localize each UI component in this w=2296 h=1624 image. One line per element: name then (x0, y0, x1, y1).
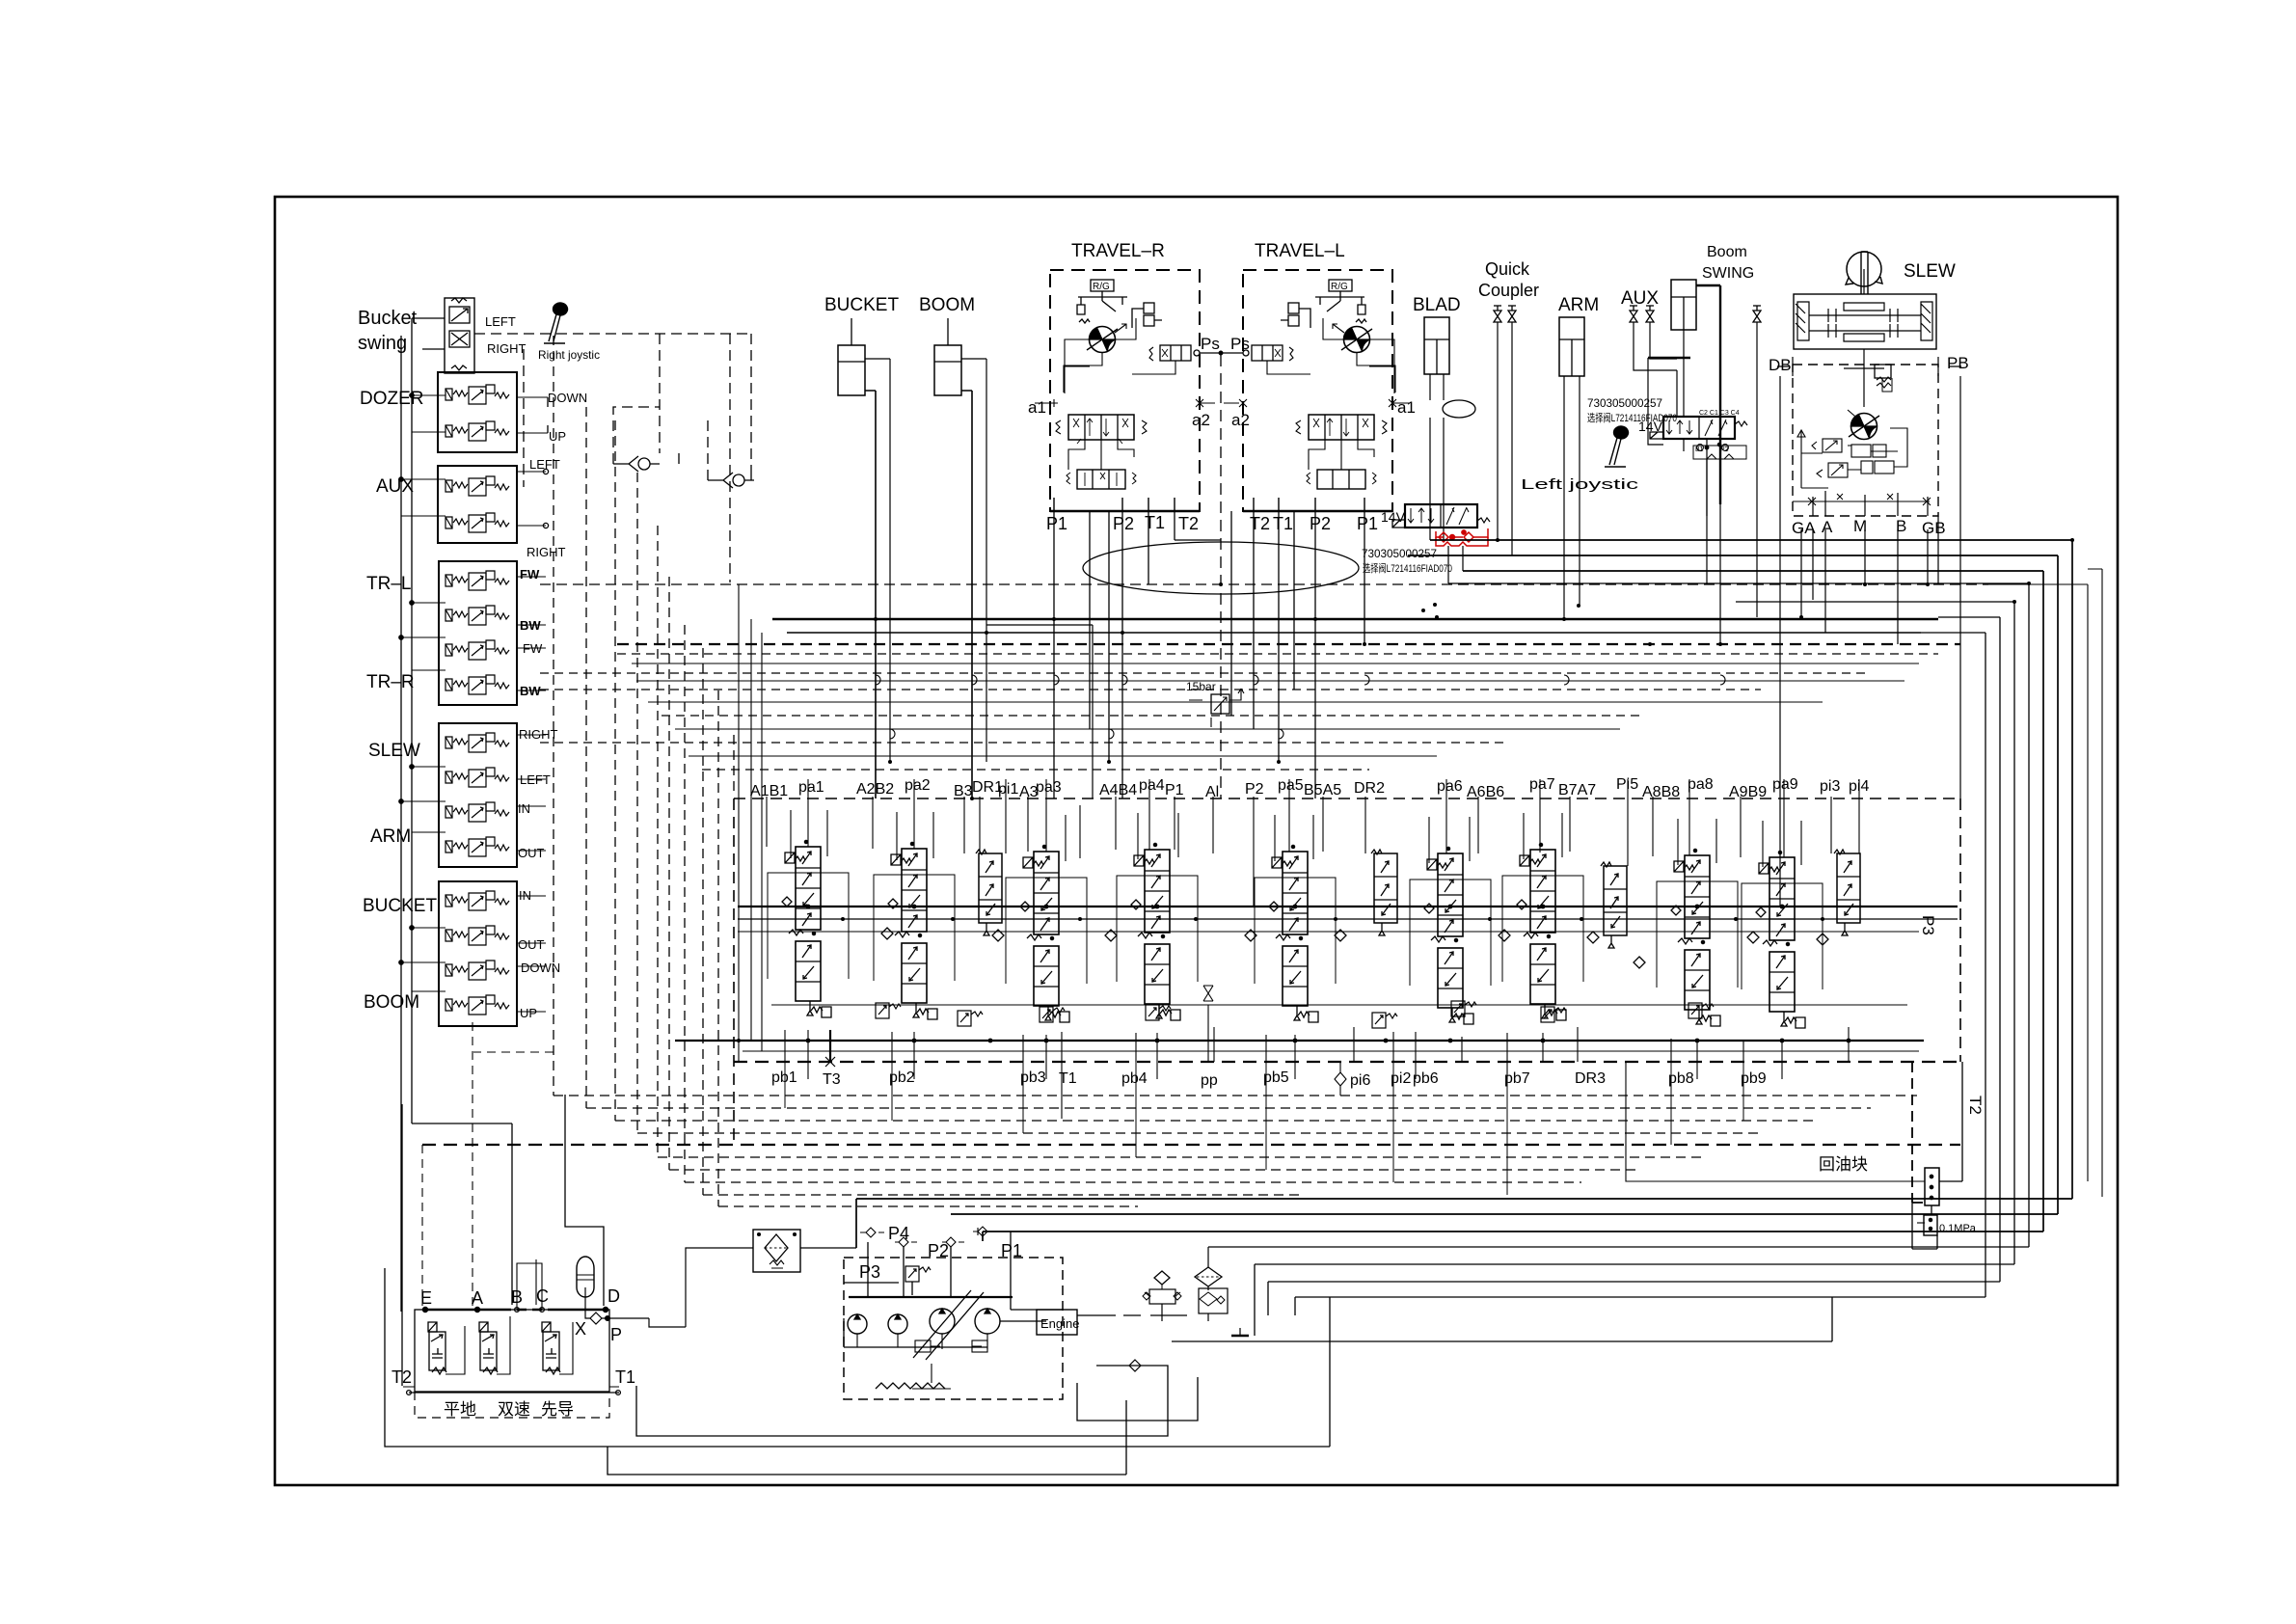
valve pilot solenoid 2 (479, 1322, 498, 1374)
port drop wires from label row into sections (767, 779, 1859, 907)
wire: dashed drops to EABCD (422, 1022, 554, 1306)
valve block SLEW / ARM (401, 723, 546, 867)
wire: pump suction to tank line (1011, 1297, 1832, 1341)
wire: left vertical bus lines (401, 318, 512, 1312)
svg-text:选择阀L7214116FIAD070: 选择阀L7214116FIAD070 (1587, 411, 1677, 424)
filter small (air breather) (1154, 1271, 1170, 1285)
svg-text:A: A (1822, 518, 1833, 536)
svg-text:730305000257: 730305000257 (1362, 547, 1437, 560)
svg-text:R/G: R/G (1093, 282, 1110, 292)
svg-text:pb1: pb1 (771, 1069, 797, 1086)
svg-text:Bucket: Bucket (358, 308, 418, 329)
wire: center dashed divider (1220, 355, 1222, 798)
wire hops (crossing arcs) (876, 675, 1725, 739)
svg-text:P: P (610, 1325, 622, 1344)
svg-text:AUX: AUX (376, 476, 414, 497)
manifold bottom port labels (771, 1069, 1767, 1089)
wire: travel port drops (1054, 511, 1221, 798)
valve sections (short) (976, 850, 1002, 935)
section bottom drop wires (785, 1027, 1849, 1119)
svg-text:P4: P4 (888, 1224, 909, 1243)
cylinder Boom SWING (1648, 280, 1720, 504)
svg-text:P2: P2 (1310, 514, 1331, 533)
svg-text:B7A7: B7A7 (1558, 782, 1596, 798)
DB / PB port stubs (1777, 357, 1961, 376)
T lines (403, 1386, 619, 1388)
manifold top port labels (750, 776, 1869, 800)
swash plate arrows (913, 1290, 984, 1360)
svg-text:T1: T1 (1273, 514, 1293, 533)
valve block BUCKET / BOOM (401, 881, 546, 1026)
valve block TR-L / TR-R (401, 561, 546, 705)
check valve pilot 1 (613, 456, 660, 472)
svg-text:pi6: pi6 (1350, 1072, 1370, 1089)
svg-text:Pi5: Pi5 (1616, 776, 1638, 793)
svg-text:DR2: DR2 (1354, 780, 1385, 797)
valve pi6 check (1335, 1062, 1346, 1096)
svg-text:T3: T3 (823, 1071, 841, 1088)
shuttle valve with spring (1160, 345, 1191, 361)
svg-text:DR3: DR3 (1575, 1070, 1606, 1087)
main spool row (1068, 415, 1134, 440)
svg-text:P2: P2 (1245, 781, 1264, 798)
ports under travel-R (1054, 498, 1175, 511)
svg-text:a1: a1 (1028, 398, 1046, 417)
valve selector-1 (travel speed, 14V) (1392, 504, 1490, 528)
svg-text:T2: T2 (1250, 514, 1270, 533)
T3 port stub (829, 1030, 831, 1062)
wire: long dashed pilot bus (540, 583, 1988, 585)
svg-text:a2: a2 (1231, 411, 1250, 429)
gauge ticks at P4/P2/P1 (860, 1228, 884, 1237)
svg-text:B: B (1896, 517, 1906, 535)
svg-text:P1: P1 (1046, 514, 1067, 533)
svg-text:Coupler: Coupler (1478, 281, 1539, 300)
svg-text:先导: 先导 (541, 1400, 574, 1419)
svg-text:OUT: OUT (518, 937, 545, 952)
travel-R dashed enclosure (1050, 270, 1200, 511)
filter suction (1195, 1267, 1222, 1286)
svg-text:P2: P2 (928, 1241, 949, 1260)
svg-text:A6B6: A6B6 (1467, 784, 1504, 800)
bowtie drain symbol (1203, 986, 1213, 1001)
svg-text:D: D (608, 1286, 620, 1306)
section frames (768, 873, 1823, 989)
svg-text:pa2: pa2 (905, 777, 931, 794)
accumulator (577, 1257, 594, 1297)
svg-text:pb3: pb3 (1020, 1069, 1046, 1086)
svg-text:B1: B1 (1695, 447, 1704, 453)
border frame (275, 197, 2118, 1485)
wire: T1 return to right (636, 1366, 1168, 1436)
svg-text:A: A (472, 1288, 483, 1308)
svg-text:LEFT: LEFT (520, 772, 551, 787)
ellipse joint small (BLAD line) (1443, 400, 1475, 418)
wire: selector-2 drops (1684, 439, 1720, 644)
svg-text:Left joystic: Left joystic (1521, 476, 1639, 493)
svg-text:Quick: Quick (1485, 259, 1530, 279)
svg-text:ARM: ARM (370, 826, 411, 847)
svg-text:14V: 14V (1638, 419, 1663, 434)
svg-text:RIGHT: RIGHT (519, 727, 558, 742)
valve pilot solenoid 1 (428, 1322, 446, 1374)
cylinder ARM (1559, 317, 1584, 619)
wire: port-to-dashed-bus stubs below manifold (785, 1062, 1743, 1195)
svg-text:GA: GA (1792, 519, 1816, 537)
joystick left (1605, 426, 1628, 467)
bottom ports row (1793, 501, 1930, 502)
valve block AUX (left) (401, 466, 549, 543)
svg-text:TR–R: TR–R (366, 672, 415, 692)
svg-text:DOZER: DOZER (360, 389, 424, 409)
svg-text:P2: P2 (1720, 447, 1729, 453)
red pilot lines on selector-1 (1436, 528, 1488, 546)
cylinder BUCKET (838, 318, 890, 798)
wire: manifold left edge verticals (739, 584, 762, 1062)
svg-text:pa7: pa7 (1529, 776, 1555, 793)
svg-text:UP: UP (549, 429, 566, 444)
svg-text:LEFT: LEFT (485, 314, 516, 329)
travel-L dashed enclosure (1243, 270, 1392, 511)
cylinder BLAD (1424, 317, 1449, 542)
junction dots along buses (806, 905, 1851, 1043)
pump dashed enclosure (844, 1258, 1063, 1399)
svg-text:Right joystic: Right joystic (538, 348, 600, 362)
svg-text:FW: FW (520, 567, 540, 582)
svg-text:ARM: ARM (1558, 295, 1599, 315)
svg-text:pa8: pa8 (1688, 776, 1714, 793)
svg-text:SLEW: SLEW (368, 741, 420, 761)
svg-text:Ps: Ps (1201, 335, 1220, 353)
svg-text:pb4: pb4 (1121, 1070, 1148, 1087)
heavy P lines (849, 1296, 1013, 1298)
svg-text:E: E (420, 1288, 432, 1308)
svg-text:Ps: Ps (1230, 335, 1250, 353)
svg-text:P1: P1 (1165, 782, 1184, 798)
svg-text:BUCKET: BUCKET (363, 896, 437, 916)
box B between (517, 1263, 542, 1310)
svg-text:BW: BW (520, 618, 541, 633)
svg-text:pb2: pb2 (889, 1069, 915, 1086)
brake R/G box (1091, 280, 1114, 291)
svg-text:pi1: pi1 (998, 781, 1018, 798)
motor travel-R (1087, 327, 1118, 353)
relief valves at section bottoms (876, 1003, 901, 1018)
svg-text:A4B4: A4B4 (1099, 782, 1137, 798)
valve 15bar (1189, 689, 1244, 727)
valve pilot solenoid 3 (542, 1322, 560, 1374)
svg-text:BOOM: BOOM (364, 992, 419, 1013)
svg-text:FW: FW (523, 641, 543, 656)
cylinder BOOM (934, 318, 1093, 798)
svg-text:pb5: pb5 (1263, 1069, 1289, 1086)
svg-text:选择阀L7214116FIAD070: 选择阀L7214116FIAD070 (1363, 561, 1452, 575)
svg-text:LEFT: LEFT (529, 457, 560, 472)
joystick right (544, 303, 567, 343)
slew control valves (1797, 428, 1907, 488)
svg-text:pa4: pa4 (1139, 777, 1165, 794)
svg-text:SLEW: SLEW (1904, 261, 1956, 282)
svg-text:IN: IN (518, 801, 530, 816)
svg-text:DOWN: DOWN (548, 391, 587, 405)
small boxes (915, 1340, 931, 1352)
wire: far-right verticals to border (1988, 584, 2088, 1181)
valve bucket-swing (4/3 hand valve) (445, 298, 474, 373)
svg-text:P1: P1 (1001, 1241, 1022, 1260)
valve AUX needles (right) (1630, 306, 1637, 322)
svg-text:BUCKET: BUCKET (824, 295, 899, 315)
pump circles (848, 1314, 867, 1334)
svg-text:Al: Al (1205, 784, 1219, 800)
tank stub (1231, 1335, 1249, 1338)
svg-text:X: X (575, 1319, 586, 1339)
svg-text:pb8: pb8 (1668, 1070, 1694, 1087)
svg-text:R/G: R/G (1331, 282, 1348, 292)
slew arrow symbol (1847, 252, 1881, 286)
svg-text:pa5: pa5 (1278, 777, 1304, 794)
wire: nested L returns bottom-right (856, 540, 2072, 1248)
svg-text:Boom: Boom (1707, 244, 1747, 260)
wire: heavy supply lines (772, 618, 1938, 620)
svg-text:RIGHT: RIGHT (527, 545, 566, 559)
svg-text:BOOM: BOOM (919, 295, 975, 315)
shaft to engine (1000, 1320, 1046, 1322)
svg-text:A1B1: A1B1 (750, 783, 788, 799)
secondary spool row (1077, 470, 1125, 489)
svg-text:pb7: pb7 (1504, 1070, 1530, 1087)
svg-text:C2 C1 C3 C4: C2 C1 C3 C4 (1699, 410, 1740, 417)
svg-text:swing: swing (358, 333, 407, 354)
wire: dashed pilot supply from bucket-swing valve (474, 333, 751, 335)
svg-text:平地: 平地 (444, 1400, 476, 1419)
check valve diamond at P (590, 1313, 602, 1324)
node dots at band crossings (737, 538, 2074, 1042)
svg-text:T1: T1 (615, 1367, 635, 1387)
svg-text:pi4: pi4 (1849, 778, 1869, 795)
svg-text:730305000257: 730305000257 (1587, 396, 1662, 410)
svg-text:C: C (536, 1286, 549, 1306)
svg-text:IN: IN (519, 888, 531, 903)
svg-text:0.1MPa: 0.1MPa (1939, 1223, 1977, 1234)
svg-text:T1: T1 (1059, 1070, 1077, 1087)
svg-text:A9B9: A9B9 (1729, 784, 1767, 800)
svg-text:pb6: pb6 (1413, 1070, 1439, 1087)
svg-text:RIGHT: RIGHT (487, 341, 527, 356)
svg-text:T2: T2 (1178, 514, 1199, 533)
wires below slew (1801, 516, 1938, 644)
svg-text:B5A5: B5A5 (1304, 782, 1341, 798)
svg-text:P2: P2 (1113, 514, 1134, 533)
svg-text:SWING: SWING (1702, 265, 1754, 282)
svg-text:双速: 双速 (498, 1400, 530, 1419)
wire: manifold right side drops (1912, 1062, 1925, 1203)
slew valve dashed box (1793, 365, 1938, 516)
svg-text:A8B8: A8B8 (1642, 784, 1680, 800)
valve selector-2 (boom swing, 14V) (1650, 417, 1747, 516)
svg-text:P3: P3 (1919, 915, 1937, 935)
svg-text:Engine: Engine (1040, 1316, 1079, 1331)
small check diamonds row (881, 928, 1828, 968)
wire: Ps to Ps link (1200, 352, 1243, 354)
svg-text:UP: UP (520, 1006, 537, 1020)
svg-text:pi2: pi2 (1391, 1070, 1411, 1087)
svg-text:P3: P3 (859, 1262, 880, 1282)
node E-A-B-C-D bus (422, 1309, 501, 1311)
svg-text:T2: T2 (392, 1367, 412, 1387)
wire: engine drain to filters (1077, 1314, 1187, 1316)
svg-text:pa6: pa6 (1437, 778, 1463, 795)
svg-text:DOWN: DOWN (521, 961, 560, 975)
node dots on bus (410, 393, 414, 397)
svg-text:回油块: 回油块 (1819, 1155, 1868, 1174)
pressure boxes (1144, 303, 1154, 313)
svg-text:a1: a1 (1397, 398, 1416, 417)
svg-text:pb9: pb9 (1741, 1070, 1767, 1087)
slew motor (1849, 414, 1879, 440)
svg-text:pa3: pa3 (1036, 779, 1062, 796)
svg-text:DB: DB (1769, 356, 1792, 374)
svg-text:OUT: OUT (518, 846, 545, 860)
valve sections (tall) (782, 840, 831, 1017)
svg-text:pp: pp (1201, 1072, 1218, 1089)
svg-text:A2B2: A2B2 (856, 781, 894, 798)
dashed lower frame with chinese labels (415, 1392, 609, 1418)
relief on P3 (905, 1266, 931, 1282)
wire pp port (1207, 1005, 1209, 1062)
wire: left nested drops (385, 1268, 1330, 1447)
valve quick-coupler needles (1494, 306, 1501, 322)
svg-text:BLAD: BLAD (1413, 295, 1461, 315)
manifold inner bus lines (738, 906, 1958, 907)
svg-text:T1: T1 (1145, 513, 1165, 532)
svg-text:GB: GB (1922, 519, 1946, 537)
svg-text:B: B (511, 1287, 523, 1307)
svg-text:TRAVEL–R: TRAVEL–R (1071, 241, 1165, 261)
svg-text:B3: B3 (954, 783, 973, 799)
wire filter to P (615, 1248, 753, 1327)
svg-text:TRAVEL–L: TRAVEL–L (1255, 241, 1345, 261)
svg-text:a2: a2 (1192, 411, 1210, 429)
spring bottom (876, 1383, 945, 1389)
relief with spring (1875, 365, 1891, 378)
svg-text:pa1: pa1 (798, 779, 824, 796)
svg-text:PB: PB (1947, 354, 1969, 372)
svg-text:pa9: pa9 (1772, 776, 1798, 793)
svg-text:TR–L: TR–L (366, 574, 411, 594)
svg-text:BW: BW (520, 684, 541, 698)
gearbox (1794, 294, 1936, 349)
svg-text:15bar: 15bar (1186, 680, 1216, 693)
svg-text:pi3: pi3 (1820, 778, 1840, 795)
svg-text:AUX: AUX (1621, 288, 1659, 309)
wire: bucket swing outputs (412, 318, 445, 349)
svg-text:14V: 14V (1381, 509, 1406, 525)
manifold dashed boundary (734, 798, 1960, 1145)
svg-text:T2: T2 (1966, 1096, 1985, 1115)
check valve pilot 2 (708, 473, 754, 488)
valve block DOZER (412, 372, 548, 452)
ellipse joint big (1083, 542, 1359, 594)
svg-text:P1: P1 (1357, 514, 1378, 533)
internal wires (1064, 318, 1175, 393)
svg-text:M: M (1853, 517, 1867, 535)
